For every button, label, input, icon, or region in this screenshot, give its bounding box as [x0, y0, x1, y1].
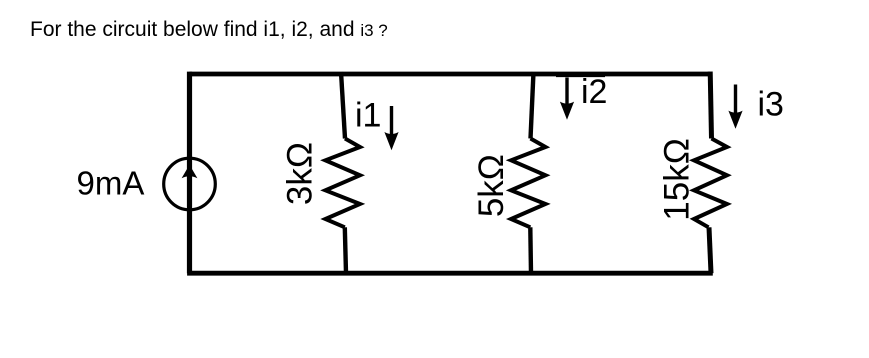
svg-text:3kΩ: 3kΩ: [280, 142, 319, 205]
wire right top stub: [710, 72, 711, 139]
wire overlap mark on top wire: [556, 75, 605, 77]
wire top: [190, 72, 711, 77]
wire left: [187, 72, 192, 274]
svg-text:For the circuit below find i1,: For the circuit below find i1, i2, and i…: [30, 18, 388, 41]
current arrow i2: [560, 78, 574, 120]
wire 5k bottom: [528, 227, 533, 273]
svg-text:i3: i3: [758, 86, 784, 124]
resistor R1 3kΩ: [325, 139, 360, 228]
svg-text:15kΩ: 15kΩ: [658, 138, 697, 221]
resistor R2 5kΩ: [511, 139, 546, 228]
svg-text:i2: i2: [581, 73, 607, 111]
current arrow i3: [728, 85, 742, 129]
current source I 9mA: [164, 158, 216, 210]
wire bottom: [187, 271, 713, 276]
svg-text:5kΩ: 5kΩ: [472, 154, 511, 217]
wire 3k bottom: [345, 227, 346, 273]
wire 3k top: [341, 72, 345, 139]
svg-text:9mA: 9mA: [77, 165, 145, 202]
resistor R3 15kΩ: [694, 139, 727, 228]
wire right bottom stub: [709, 227, 711, 273]
wire 5k top: [531, 72, 534, 139]
current arrow i1: [384, 106, 398, 150]
svg-text:i1: i1: [355, 97, 381, 135]
